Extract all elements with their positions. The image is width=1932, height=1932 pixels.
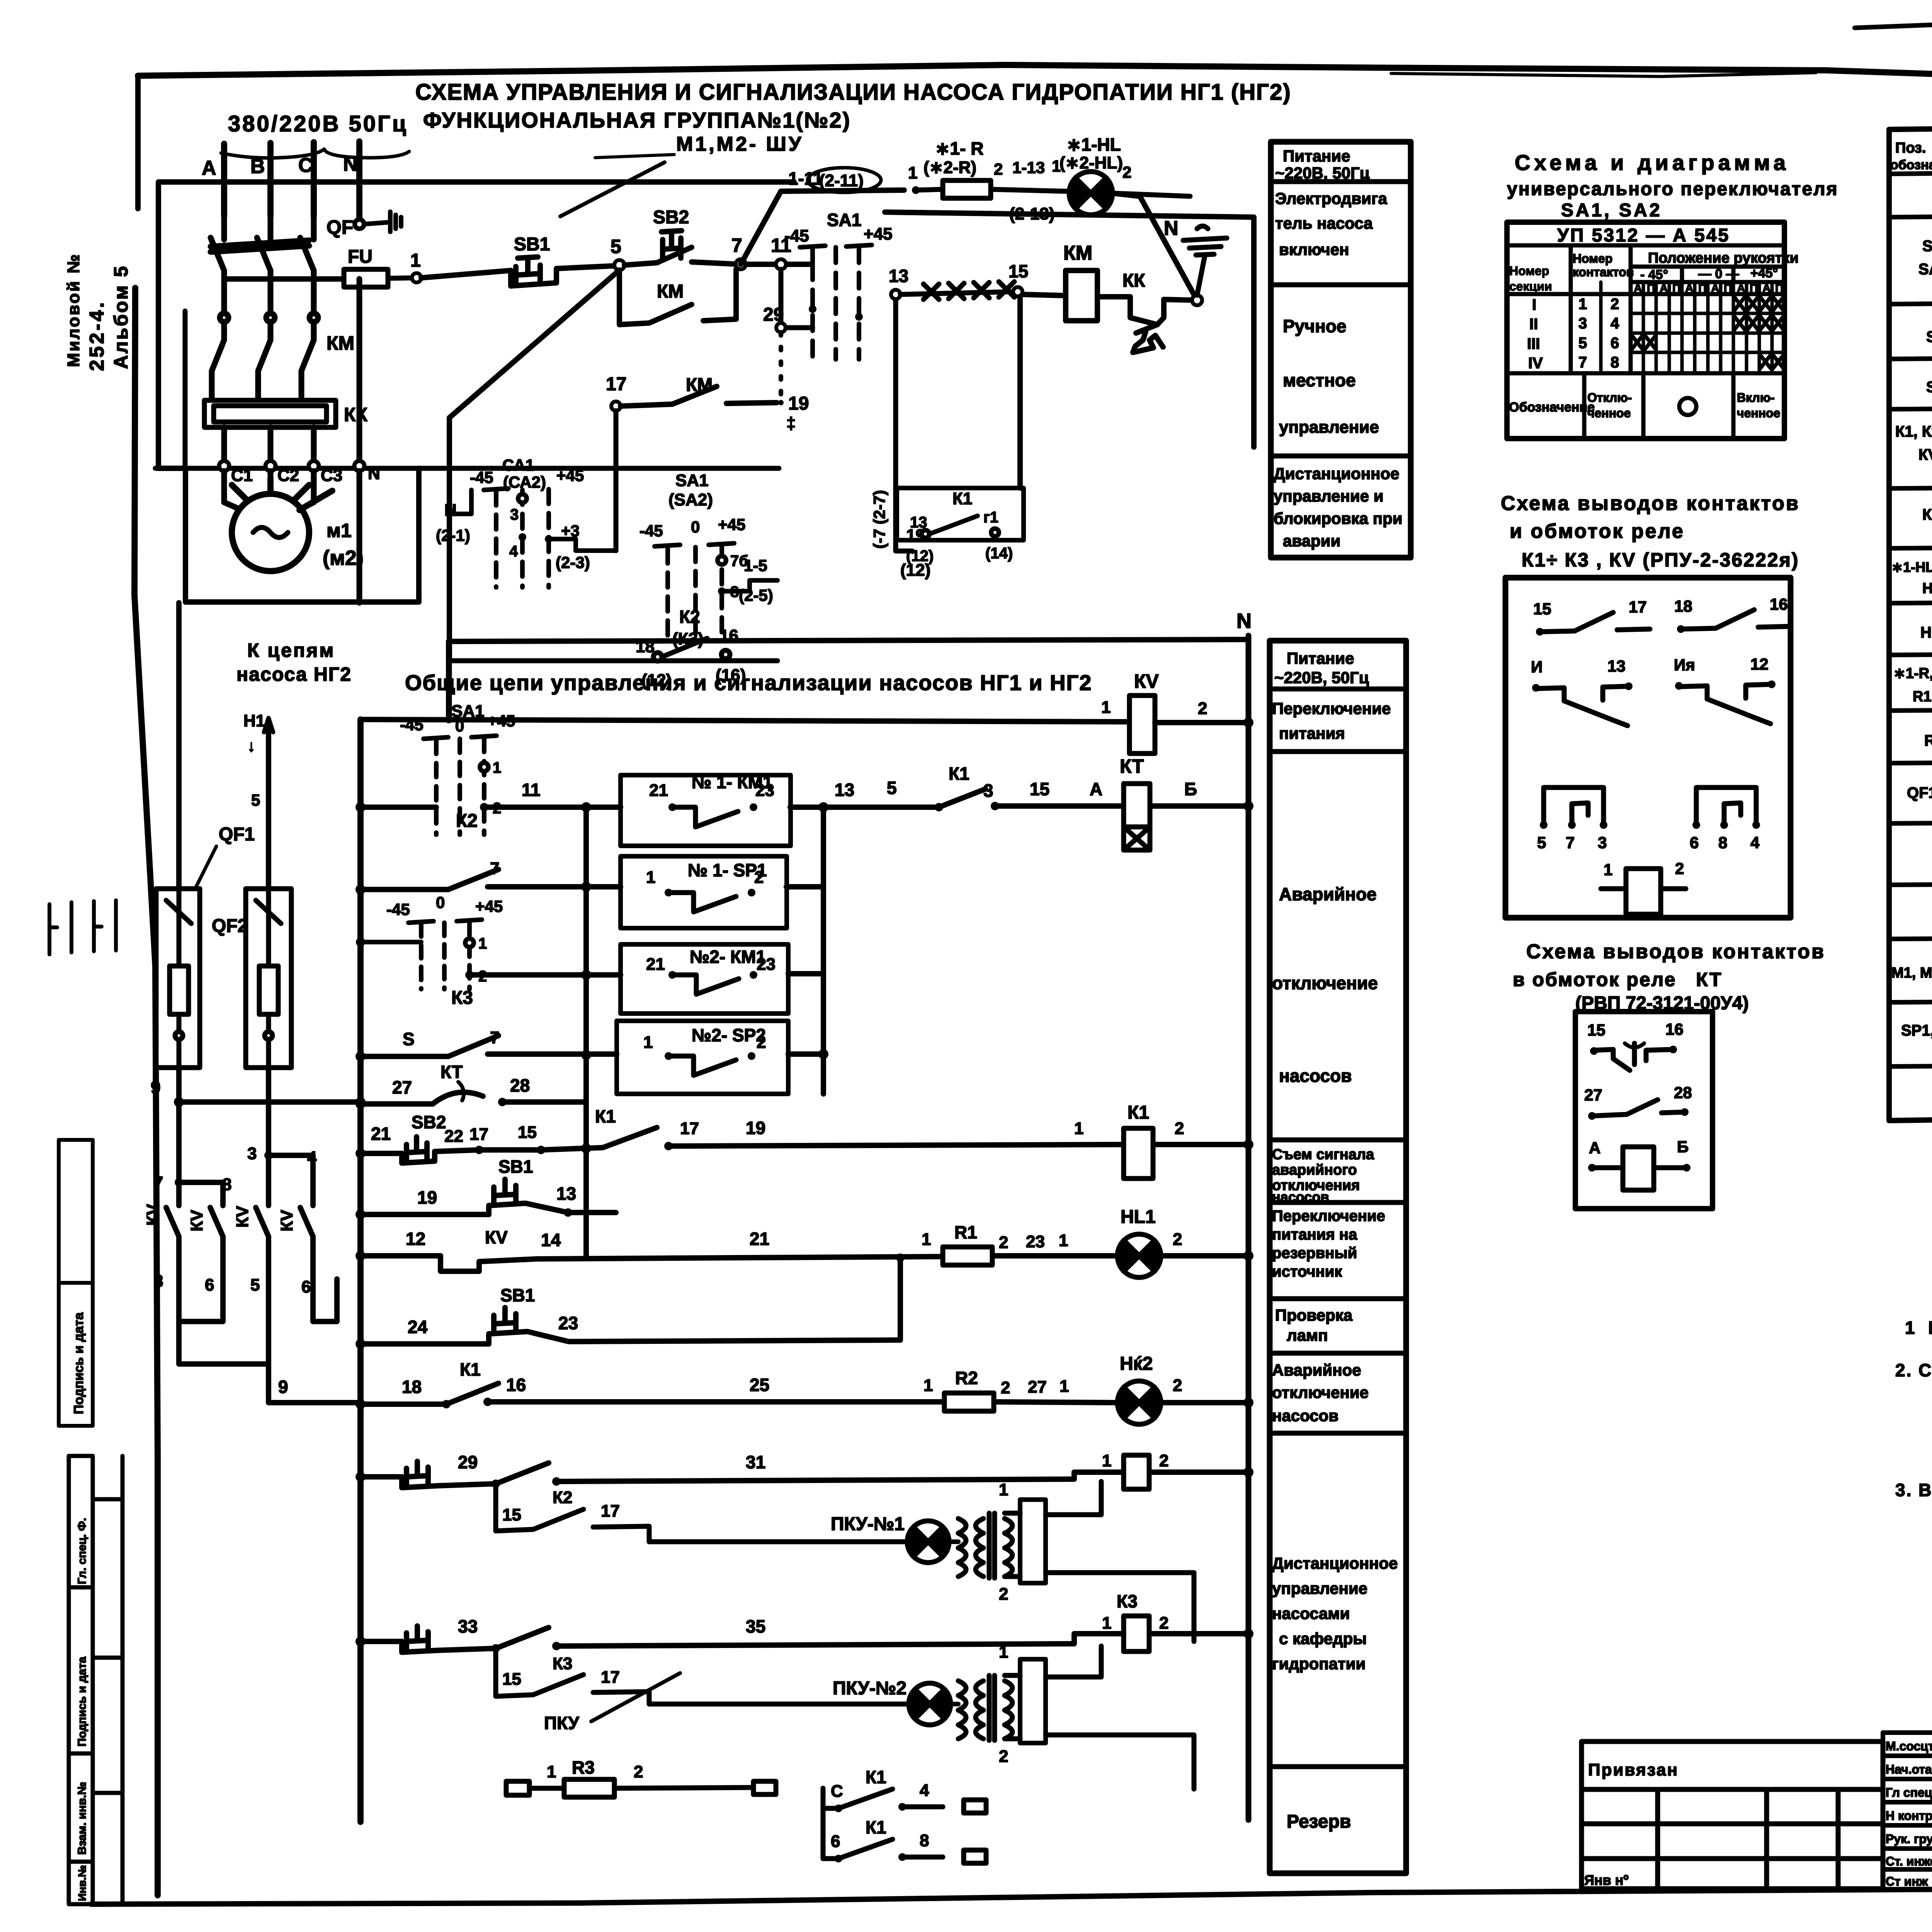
wire underline of M1,M2-ShU	[595, 155, 674, 158]
svg-text:Проверка: Проверка	[1275, 1306, 1353, 1324]
svg-text:SB1: SB1	[498, 1156, 533, 1177]
wire rung11 K1 R2 HL2	[361, 1383, 1248, 1404]
svg-text:5: 5	[250, 1276, 260, 1294]
svg-text:29: 29	[763, 304, 784, 325]
thermal relay KK box	[204, 400, 336, 427]
svg-text:Отклю-: Отклю-	[1587, 391, 1632, 405]
wire from node1 to SB1	[421, 270, 511, 278]
wire enclosure bottom	[185, 468, 419, 602]
coil pins 1-2	[1601, 859, 1686, 914]
svg-text:11: 11	[522, 780, 541, 800]
svg-text:FU: FU	[348, 247, 372, 267]
svg-text:380/220В 50Гц: 380/220В 50Гц	[228, 111, 408, 136]
switch SA1(SA2) group left	[436, 456, 616, 587]
wire ladder box left corner	[446, 641, 451, 721]
SA table bottom row	[1509, 373, 1780, 439]
svg-text:3: 3	[983, 781, 993, 801]
svg-text:SP1, SP2: SP1, SP2	[1901, 1022, 1932, 1039]
label column 2	[1270, 641, 1406, 1873]
svg-text:Электродвига: Электродвига	[1275, 189, 1387, 207]
label column 1	[1271, 142, 1411, 558]
svg-text:Схема выводов контактов: Схема выводов контактов	[1526, 940, 1825, 963]
contact K1 bottom a	[823, 1788, 986, 1813]
svg-text:А: А	[1634, 282, 1642, 295]
svg-text:А: А	[1589, 1139, 1600, 1157]
wire enclosure top right part	[885, 212, 1254, 447]
svg-text:(∗2-R): (∗2-R)	[923, 158, 976, 177]
svg-text:1: 1	[1059, 1231, 1068, 1250]
svg-text:К2: К2	[553, 1488, 572, 1507]
svg-text:6: 6	[831, 1832, 840, 1851]
svg-text:25: 25	[750, 1375, 769, 1395]
contact CO pins 14-12	[1674, 655, 1776, 724]
svg-text:Аварийное: Аварийное	[1279, 884, 1377, 904]
svg-text:управление: управление	[1279, 418, 1379, 437]
wire control tap bus	[224, 276, 343, 282]
svg-text:Янв нº: Янв нº	[1584, 1872, 1629, 1888]
svg-text:СХЕМА УПРАВЛЕНИЯ И СИГНАЛИЗАЦИ: СХЕМА УПРАВЛЕНИЯ И СИГНАЛИЗАЦИИ НАСОСА Г…	[415, 80, 1291, 105]
contact KK thermal	[1097, 297, 1197, 352]
wire motor feeders	[224, 471, 359, 603]
svg-text:С2: С2	[277, 466, 299, 485]
svg-text:252-4.: 252-4.	[86, 300, 108, 371]
svg-text:Схема выводов контактов: Схема выводов контактов	[1501, 492, 1800, 515]
wire bracket under 380/220	[221, 149, 409, 158]
coil KV	[1129, 696, 1155, 753]
wire sheet top border	[138, 65, 1932, 92]
contact K1 bottom b	[823, 1808, 986, 1863]
svg-text:(SA2): (SA2)	[668, 490, 713, 509]
motor M1 (M2)	[232, 478, 332, 571]
svg-text:№2- КМ1: №2- КМ1	[690, 947, 766, 967]
svg-text:12: 12	[1750, 655, 1769, 673]
svg-text:13: 13	[1607, 657, 1626, 675]
wire KV to node 9 rung	[269, 1364, 361, 1403]
svg-text:аварии: аварии	[1283, 532, 1340, 550]
svg-text:Подпись и дата: Подпись и дата	[76, 1656, 88, 1747]
svg-text:0: 0	[455, 717, 464, 735]
svg-text:35: 35	[746, 1616, 765, 1636]
svg-text:9: 9	[278, 1377, 288, 1397]
svg-text:Питание: Питание	[1283, 147, 1350, 165]
svg-text:К1: К1	[866, 1767, 886, 1787]
row M1 M2-ShU	[1891, 958, 1932, 992]
svg-text:К1, К2, К3,: К1, К2, К3,	[1895, 423, 1932, 440]
node labels KV matrix	[143, 1144, 317, 1296]
svg-text:П: П	[1698, 282, 1707, 295]
svg-text:1: 1	[923, 1376, 933, 1395]
svg-text:1: 1	[1102, 1614, 1111, 1633]
svg-text:тель насоса: тель насоса	[1275, 214, 1373, 232]
svg-text:3: 3	[1598, 833, 1607, 852]
svg-text:23: 23	[755, 781, 774, 800]
svg-text:М.сосцто: М.сосцто	[1886, 1739, 1932, 1753]
svg-text:14: 14	[541, 1230, 561, 1250]
svg-text:насосов: насосов	[1279, 1066, 1352, 1086]
svg-text:↓: ↓	[247, 737, 255, 755]
wire short line above table	[1855, 24, 1932, 28]
coil KM	[1066, 270, 1097, 321]
svg-text:А: А	[1737, 282, 1745, 295]
wire rung4 to box3	[469, 972, 621, 978]
resistor R lamp branch	[916, 180, 1066, 198]
svg-text:источник: источник	[1272, 1263, 1342, 1280]
svg-text:ПКУ-№2: ПКУ-№2	[833, 1678, 906, 1699]
svg-text:4: 4	[1611, 315, 1619, 332]
svg-text:13: 13	[835, 780, 854, 800]
wire rung node11 to node13	[781, 269, 813, 328]
svg-text:I: I	[1532, 296, 1536, 313]
svg-text:SA1: SA1	[827, 210, 861, 230]
svg-text:ченное: ченное	[1737, 406, 1780, 420]
svg-text:К1: К1	[460, 1359, 481, 1379]
svg-text:18: 18	[402, 1377, 422, 1397]
svg-text:С3: С3	[321, 466, 342, 485]
svg-text:м1: м1	[327, 520, 352, 541]
svg-text:1: 1	[478, 935, 487, 952]
svg-text:г1: г1	[983, 509, 998, 526]
wire rung12 PKU1 feed	[361, 1461, 1248, 1488]
svg-text:S: S	[403, 1029, 415, 1049]
svg-text:SB1: SB1	[514, 234, 550, 255]
svg-text:Альбом 5: Альбом 5	[110, 265, 132, 369]
svg-text:QF1, QF2: QF1, QF2	[1907, 784, 1932, 801]
svg-text:П: П	[1775, 282, 1784, 295]
svg-text:Рук. груп.: Рук. груп.	[1886, 1832, 1932, 1846]
wire vertical from SA bottom	[447, 661, 452, 721]
wire rung13 PKU2 feed	[361, 1626, 1248, 1652]
svg-text:Подпись и дата: Подпись и дата	[71, 1312, 86, 1414]
wire node15 drop to K1 box	[1017, 298, 1023, 488]
svg-text:3: 3	[1578, 315, 1587, 332]
svg-text:0: 0	[436, 893, 445, 912]
svg-text:КV: КV	[1918, 446, 1932, 463]
contact KT timed pins 15-16	[1587, 1020, 1684, 1070]
svg-text:№2- SP2: №2- SP2	[692, 1025, 766, 1045]
wire phase line A	[221, 144, 227, 216]
svg-text:ПКУ-№1: ПКУ-№1	[831, 1514, 905, 1534]
svg-text:5: 5	[611, 236, 621, 257]
svg-text:1: 1	[1101, 698, 1111, 717]
svg-text:2: 2	[999, 1233, 1008, 1252]
row SP1 SP2	[1901, 1016, 1932, 1058]
relay pinout KT box	[1575, 1012, 1713, 1209]
svg-text:С: С	[831, 1782, 843, 1801]
wire N bus	[1246, 636, 1252, 1820]
svg-text:21: 21	[649, 781, 668, 800]
svg-text:23: 23	[757, 955, 776, 974]
svg-text:Дистанционное: Дистанционное	[1274, 464, 1399, 483]
svg-text:КМ: КМ	[1063, 242, 1092, 264]
wire sub rung K2 contact	[496, 1484, 649, 1542]
svg-text:Переключение: Переключение	[1272, 1207, 1385, 1225]
SECTION_TOPLEFT	[143, 80, 1291, 1403]
switch SA1 dashed columns top	[800, 245, 872, 359]
svg-text:блокировка при: блокировка при	[1274, 509, 1403, 527]
svg-text:+45: +45	[475, 897, 503, 915]
svg-text:1-13: 1-13	[1012, 158, 1045, 177]
svg-text:КV: КV	[187, 1209, 206, 1231]
wire rung7 SB2 K1 coil	[361, 1128, 1248, 1163]
svg-text:аварийного: аварийного	[1272, 1162, 1357, 1178]
node junction 11	[776, 259, 786, 269]
svg-text:управление: управление	[1272, 1579, 1367, 1597]
svg-text:1: 1	[908, 163, 917, 182]
relay pinout K box	[1505, 578, 1791, 918]
svg-text:-45: -45	[470, 468, 493, 486]
row K1 K2 K3 KV	[1895, 420, 1932, 482]
svg-text:2: 2	[999, 1747, 1008, 1766]
wire crosses rung 13-15	[900, 282, 1014, 299]
svg-text:Ст. инжс: Ст. инжс	[1886, 1854, 1932, 1868]
svg-text:КV: КV	[485, 1227, 508, 1247]
lamp HL top branch	[1069, 172, 1190, 215]
row HL1	[1891, 555, 1932, 598]
svg-text:Н1: Н1	[243, 711, 265, 730]
svg-text:Номер: Номер	[1573, 252, 1612, 265]
svg-text:15: 15	[502, 1505, 521, 1524]
fuse-switch QF1	[156, 889, 200, 1068]
svg-text:Аварийное: Аварийное	[1272, 1361, 1361, 1379]
node junction 7	[736, 259, 746, 269]
coil KT pins A-B	[1588, 1138, 1690, 1190]
svg-text:1: 1	[643, 1033, 653, 1052]
svg-text:с кафедры: с кафедры	[1279, 1629, 1367, 1648]
svg-text:SB1: SB1	[500, 1285, 535, 1305]
svg-text:КМ: КМ	[327, 332, 354, 354]
svg-text:8: 8	[1718, 833, 1727, 852]
svg-text:1: 1	[922, 1230, 931, 1249]
svg-text:М1,М2- ШУ: М1,М2- ШУ	[676, 133, 803, 155]
svg-text:КТ: КТ	[1922, 506, 1932, 523]
svg-text:Нќ2: Нќ2	[1120, 1354, 1153, 1374]
svg-text:(14): (14)	[985, 545, 1013, 562]
svg-text:27: 27	[392, 1077, 412, 1097]
svg-text:Н контр.: Н контр.	[1886, 1809, 1932, 1823]
svg-text:2: 2	[1173, 1376, 1182, 1395]
svg-text:27: 27	[1028, 1378, 1047, 1396]
node left stamp strip middle with vertical text	[59, 1140, 93, 1426]
coil KT with X box	[1124, 784, 1150, 850]
SA table grid cells	[1601, 282, 1784, 373]
svg-text:3. В шкафу управления необходи: 3. В шкафу управления необходимо произве…	[1895, 1480, 1932, 1500]
svg-text:+45: +45	[556, 466, 584, 485]
svg-text:16: 16	[1665, 1020, 1684, 1038]
contact KM aux2 rung 17	[611, 386, 781, 411]
node junction 13 top	[891, 290, 900, 299]
wire rung9 KV contact R1 HL1	[361, 1256, 1248, 1271]
svg-text:питания: питания	[1279, 724, 1345, 742]
svg-text:7: 7	[1578, 354, 1587, 371]
svg-text:6: 6	[301, 1277, 311, 1296]
svg-text:КV: КV	[1134, 670, 1159, 692]
svg-text:Номер: Номер	[1509, 264, 1549, 278]
svg-text:Поз.: Поз.	[1895, 140, 1926, 156]
svg-text:9: 9	[151, 1077, 161, 1097]
svg-text:1: 1	[999, 1480, 1008, 1499]
svg-text:IV: IV	[1528, 355, 1543, 372]
winding pins 5-7-3	[1537, 787, 1607, 852]
wire rung5 K3	[361, 1036, 823, 1056]
svg-text:А: А	[202, 157, 216, 179]
lamp PKU-N1	[649, 1521, 949, 1563]
KV contact matrix	[166, 1102, 337, 1364]
svg-text:12: 12	[406, 1229, 425, 1249]
wire left rail	[357, 719, 364, 1822]
svg-text:(2-11): (2-11)	[819, 171, 864, 190]
svg-text:4: 4	[1750, 833, 1760, 852]
svg-text:SA1, SA2: SA1, SA2	[1561, 200, 1662, 221]
svg-text:2: 2	[634, 1762, 643, 1781]
svg-text:8: 8	[920, 1831, 929, 1850]
winding pins 6-8-4	[1690, 787, 1760, 852]
row SB1	[1926, 312, 1932, 351]
wire QF1 branch vertical	[176, 603, 182, 889]
wire QF1 leader	[193, 846, 216, 893]
svg-text:Положение рукоятки: Положение рукоятки	[1648, 250, 1799, 266]
svg-text:К1: К1	[1128, 1102, 1149, 1123]
row SB2	[1926, 368, 1932, 407]
svg-text:Съем сигнала: Съем сигнала	[1272, 1146, 1374, 1163]
svg-text:5: 5	[887, 778, 897, 798]
svg-text:2: 2	[1198, 699, 1207, 718]
wire 17 vertical down	[614, 411, 619, 551]
svg-text:+45: +45	[488, 712, 515, 730]
contactor KM poles	[212, 313, 318, 400]
svg-text:КV: КV	[233, 1206, 252, 1228]
svg-text:ПКУ: ПКУ	[544, 1713, 580, 1733]
svg-text:2: 2	[1159, 1451, 1168, 1470]
svg-text:QF: QF	[327, 216, 353, 238]
bypass box 1 KM1	[621, 772, 791, 846]
SA table row labels	[1527, 296, 1619, 372]
svg-text:Б: Б	[1184, 779, 1197, 799]
svg-text:Схема и диаграмма: Схема и диаграмма	[1515, 150, 1789, 175]
wire right vertical x2318	[896, 294, 912, 551]
svg-text:1: 1	[1102, 1451, 1111, 1470]
svg-text:(12): (12)	[906, 548, 934, 565]
svg-text:15: 15	[1587, 1021, 1605, 1039]
wire leader from M1,M2-ShU	[560, 162, 665, 216]
svg-text:в обмоток реле КТ: в обмоток реле КТ	[1513, 969, 1723, 990]
svg-text:4: 4	[509, 543, 518, 560]
wire phase drops below QF	[224, 270, 314, 313]
svg-text:и обмоток реле: и обмоток реле	[1510, 520, 1685, 543]
pushbutton SB1 rung10	[361, 1258, 900, 1344]
wire diagonal from node7 to lamp branch	[741, 190, 904, 264]
svg-text:К1÷ К3 , КV (РПУ-2-36222я): К1÷ К3 , КV (РПУ-2-36222я)	[1522, 549, 1799, 571]
svg-text:1: 1	[1060, 1377, 1069, 1396]
svg-text:1: 1	[547, 1762, 556, 1781]
wire sheet bottom border	[91, 1884, 1932, 1904]
wire drops to terminals	[224, 279, 359, 461]
wire rung lower horizontal	[449, 658, 777, 663]
svg-text:К3: К3	[1117, 1591, 1138, 1611]
wire bottom rung R3	[506, 1779, 776, 1797]
SECTION_TOPCTRL	[436, 134, 1227, 690]
wire inner left drop	[183, 311, 188, 468]
svg-text:Гл спец отд: Гл спец отд	[1886, 1786, 1932, 1799]
svg-text:(2-13): (2-13)	[1009, 204, 1054, 223]
svg-text:17: 17	[1629, 598, 1647, 616]
svg-text:15: 15	[1533, 600, 1551, 618]
svg-text:И: И	[1531, 658, 1543, 676]
svg-text:Вклю-: Вклю-	[1737, 391, 1775, 405]
svg-text:27: 27	[1584, 1086, 1602, 1104]
wire ladder box top edge	[449, 639, 1248, 641]
SECTION_MIDDLE	[1501, 150, 1838, 1209]
svg-text:N: N	[1236, 609, 1252, 633]
svg-text:R1: R1	[954, 1222, 977, 1242]
contact K2 (K3) bottom	[636, 607, 746, 690]
svg-text:Ия: Ия	[1674, 656, 1695, 674]
svg-text:включен: включен	[1279, 240, 1349, 259]
svg-text:1: 1	[646, 868, 655, 887]
wire sheet left border	[135, 76, 141, 209]
svg-text:К1: К1	[866, 1817, 886, 1837]
svg-text:23: 23	[1026, 1232, 1045, 1251]
svg-text:(∗2-HL): (∗2-HL)	[1060, 153, 1123, 172]
wire rung2 K1-KT	[361, 789, 1248, 807]
svg-text:+45: +45	[718, 515, 745, 534]
wire phase line N	[356, 141, 362, 221]
svg-text:К1: К1	[949, 764, 969, 784]
svg-text:19: 19	[746, 1118, 765, 1138]
svg-text:Нач.ота: Нач.ота	[1886, 1762, 1932, 1776]
svg-text:7: 7	[1566, 833, 1575, 852]
wire node7 to node11	[746, 262, 811, 267]
svg-text:15: 15	[1009, 261, 1028, 281]
svg-text:А: А	[1685, 282, 1694, 295]
svg-text:С: С	[298, 154, 313, 177]
svg-text:2: 2	[1173, 1230, 1182, 1249]
wire rung KV coil feed	[361, 719, 1129, 722]
svg-text:-45: -45	[386, 900, 410, 918]
svg-text:17: 17	[680, 1119, 699, 1138]
svg-text:17: 17	[469, 1125, 488, 1144]
svg-text:18: 18	[1674, 597, 1692, 615]
node left stamp strip bottom boxes	[69, 1456, 122, 1904]
switch SA1(SA2) group middle	[639, 471, 777, 641]
svg-text:КК: КК	[1122, 270, 1145, 291]
svg-text:HL1: HL1	[1922, 580, 1932, 597]
svg-text:8: 8	[222, 1175, 231, 1194]
svg-text:~220В, 50Гц: ~220В, 50Гц	[1275, 164, 1370, 182]
svg-text:21: 21	[750, 1229, 769, 1249]
row QF1 QF2	[1907, 773, 1932, 814]
svg-text:Общие цепи управления и сигнал: Общие цепи управления и сигнализации нас…	[405, 670, 1092, 695]
ground symbol top right	[1183, 226, 1227, 255]
SA table X marks	[1632, 297, 1784, 369]
svg-text:5: 5	[1537, 833, 1546, 852]
svg-text:~220В, 50Гц: ~220В, 50Гц	[1274, 668, 1369, 687]
bypass box 4 SP2	[617, 1021, 788, 1094]
svg-text:QF1: QF1	[219, 824, 255, 845]
svg-text:2: 2	[1001, 1378, 1010, 1397]
svg-text:(-7 (2-7): (-7 (2-7)	[870, 490, 888, 549]
SECTION_NOTES	[1895, 1318, 1932, 1530]
svg-text:22: 22	[444, 1127, 463, 1146]
svg-text:33: 33	[458, 1616, 478, 1636]
svg-text:∗1-HL: ∗1-HL	[1066, 134, 1121, 155]
svg-text:6: 6	[1611, 335, 1619, 352]
svg-text:SA1: SA1	[675, 471, 709, 490]
wire sheet left border lower	[134, 288, 158, 1895]
svg-text:R1, R2: R1, R2	[1913, 689, 1932, 705]
svg-text:1: 1	[1604, 861, 1612, 879]
svg-text:2: 2	[1175, 1119, 1184, 1138]
svg-text:Ст инж: Ст инж	[1886, 1874, 1928, 1888]
